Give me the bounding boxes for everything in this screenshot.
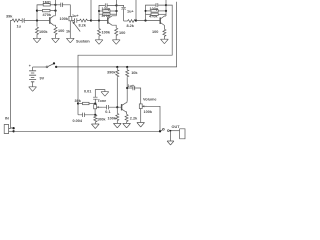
wire stage3 feedback left vertical — [146, 5, 156, 20]
transistor Q2 — [107, 17, 109, 24]
node tone bottom — [94, 114, 96, 116]
ground stage3 emitter — [161, 39, 169, 44]
resistor 470k stage3 feedback — [146, 13, 152, 15]
node Q4 base — [116, 106, 118, 108]
transistor Q1 — [49, 17, 51, 24]
node stage3 feedback left mid — [145, 10, 147, 12]
ground stage1 base resistor — [33, 38, 41, 43]
IN jack — [4, 125, 8, 134]
wire stage1 feedback left vertical — [37, 5, 44, 21]
wire Q3 collector to rail A (down right side) — [78, 5, 172, 115]
wire stage2 collector vertical with stub up — [116, 0, 118, 16]
potentiometer sustain 100k — [69, 16, 72, 20]
node stage3 collector top — [165, 4, 167, 6]
svg-text:100k: 100k — [97, 117, 106, 121]
svg-text:IN: IN — [5, 117, 9, 121]
wire stage3 collector vertical with stub — [165, 0, 167, 16]
battery 9V cells — [32, 67, 34, 71]
resistor 100p stage2 branch — [99, 10, 103, 12]
wire stage1 base to Q1 — [37, 20, 50, 22]
capacitor 0.1 tone to Q4 — [102, 105, 122, 109]
capacitor 1u+ output coupling — [127, 86, 141, 104]
svg-text:100k: 100k — [108, 116, 117, 120]
svg-text:39k: 39k — [75, 99, 82, 103]
capacitor 0.01 to gnd — [93, 90, 105, 104]
svg-text:OUT: OUT — [172, 125, 181, 129]
wire stage2 bias tall vertical from cropped V+ — [90, 0, 92, 21]
svg-text:8.2k: 8.2k — [79, 23, 87, 27]
node stage3 base jct2 — [144, 19, 146, 21]
OUT jack — [180, 129, 186, 139]
svg-text:100k: 100k — [39, 30, 48, 34]
diode pair stage3 top branch — [155, 3, 166, 7]
node stage1 collector top — [54, 4, 56, 6]
node stage3 collector mid — [165, 10, 167, 12]
svg-text:470k: 470k — [149, 15, 158, 19]
ground tone 100k — [91, 124, 99, 129]
node rail B 10k — [126, 66, 128, 68]
node stage2 collector mid — [115, 10, 117, 12]
node stage1 collector fb — [54, 10, 56, 12]
ground out jack — [167, 131, 174, 145]
wire rail B V+ — [56, 2, 176, 67]
ground volume pot — [137, 123, 145, 128]
node Q4 collector tap — [126, 87, 128, 89]
diode pair stage2 top branch — [104, 3, 116, 7]
node stage1 base junction — [36, 19, 38, 21]
transistor Q4 — [121, 104, 123, 110]
capacitor 0.004 branch — [78, 113, 95, 117]
capacitor 1u+ stage1 to stage2 — [72, 18, 80, 22]
resistor 1M stage1 top branch — [37, 4, 43, 6]
resistor 8.2k stage2-3 coupling — [124, 20, 128, 22]
ground Q4 emitter — [123, 123, 131, 128]
value labels — [5, 0, 180, 129]
wire stage3 base — [136, 20, 160, 22]
ground stage2 base resistor — [95, 40, 103, 45]
svg-text:100: 100 — [58, 29, 64, 33]
capacitor coupling stage1 collector to sustain pot — [56, 3, 71, 17]
svg-text:10k: 10k — [131, 71, 138, 75]
wire stage2 base — [91, 20, 108, 22]
svg-text:100k: 100k — [102, 31, 111, 35]
resistor 100k stage1 base-gnd — [36, 21, 38, 27]
svg-text:1u+: 1u+ — [72, 14, 79, 18]
svg-text:9V: 9V — [40, 76, 45, 80]
tone network: 39k from node — [77, 102, 79, 104]
svg-text:39k: 39k — [6, 15, 13, 19]
svg-text:0.01: 0.01 — [84, 89, 91, 93]
node out signal — [159, 130, 161, 132]
svg-text:100p: 100p — [102, 7, 111, 11]
svg-text:100p: 100p — [150, 7, 159, 11]
resistor 100 stage3 emitter — [163, 29, 166, 39]
svg-text:100k: 100k — [60, 17, 69, 21]
resistor 100p stage3 branch — [146, 10, 152, 12]
potentiometer volume 100k — [139, 104, 142, 109]
ground bus bottom — [14, 130, 160, 132]
node rail B 390k — [116, 66, 118, 68]
svg-text:470k: 470k — [102, 14, 111, 18]
svg-text:1u: 1u — [17, 25, 22, 29]
ground stage1 emitter — [52, 38, 60, 43]
resistor 100 stage1 emitter — [54, 27, 57, 38]
resistor 470k stage2 feedback — [99, 13, 103, 15]
ground 0.01 cap — [101, 92, 109, 97]
resistor 100k Q4 base-gnd — [116, 107, 118, 113]
svg-text:100: 100 — [152, 30, 158, 34]
svg-text:Tone: Tone — [98, 99, 107, 103]
ground sustain pot — [66, 38, 74, 43]
wiper arrow tone — [97, 106, 102, 108]
resistor 2.2k Q4 emitter — [125, 114, 128, 123]
resistor 8.2k stage1-2 coupling — [80, 19, 92, 22]
node stage2 base jct2 — [98, 19, 100, 21]
svg-text:1u+: 1u+ — [127, 10, 134, 14]
node stage3 base jct1 — [135, 19, 137, 21]
wire stage2 feedback left vertical — [99, 5, 104, 20]
wire stage1 collector vertical + stub to cropped V+ rail — [55, 0, 57, 16]
svg-text:1MΩ: 1MΩ — [43, 0, 51, 4]
svg-text:8.2k: 8.2k — [127, 24, 135, 28]
svg-text:1u+: 1u+ — [128, 84, 135, 88]
svg-text:0.004: 0.004 — [73, 119, 83, 123]
node tone top — [94, 102, 96, 104]
svg-text:100k: 100k — [144, 110, 153, 114]
switch SPST power — [46, 66, 48, 68]
switch output jack — [161, 130, 163, 131]
svg-text:470k: 470k — [43, 13, 52, 17]
svg-text:0.1: 0.1 — [105, 110, 110, 114]
resistor 10k Q4 collector load — [126, 67, 128, 70]
wire input vertical from IN jack up to stage1 — [11, 21, 13, 128]
wiper arrow volume — [143, 105, 148, 107]
potentiometer tone — [94, 105, 97, 109]
resistor 100k tone-gnd — [94, 115, 97, 124]
resistor 390k Q4 bias upper — [116, 67, 118, 70]
node stage1 fb mid — [36, 10, 38, 12]
capacitor 1u input — [21, 18, 37, 22]
wiper arrow sustain pot — [73, 22, 80, 32]
wire battery to switch — [33, 66, 47, 68]
node stage2 base jct1 — [90, 19, 92, 21]
resistor 100k stage2 base-gnd — [98, 21, 100, 29]
node stage2 collector top — [115, 4, 117, 6]
svg-text:Volume: Volume — [143, 98, 156, 102]
svg-text:100: 100 — [119, 31, 125, 35]
transistor Q3 — [159, 17, 161, 24]
resistor 470k stage1 feedback — [37, 10, 43, 12]
ground stage2 emitter — [112, 40, 120, 45]
resistor 39k input (horizontal zigzag) — [12, 19, 21, 22]
resistor 100 stage2 emitter — [115, 28, 118, 40]
svg-text:2.2k: 2.2k — [130, 117, 138, 121]
ground battery — [29, 87, 37, 92]
wire stage3 bias tall vertical — [135, 0, 137, 21]
ground Q4 base resistor — [113, 123, 121, 128]
capacitor 1u+ stage2 to stage3 (vertical) — [117, 5, 126, 21]
svg-text:Sustain: Sustain — [76, 40, 90, 44]
svg-text:390k: 390k — [107, 70, 116, 74]
